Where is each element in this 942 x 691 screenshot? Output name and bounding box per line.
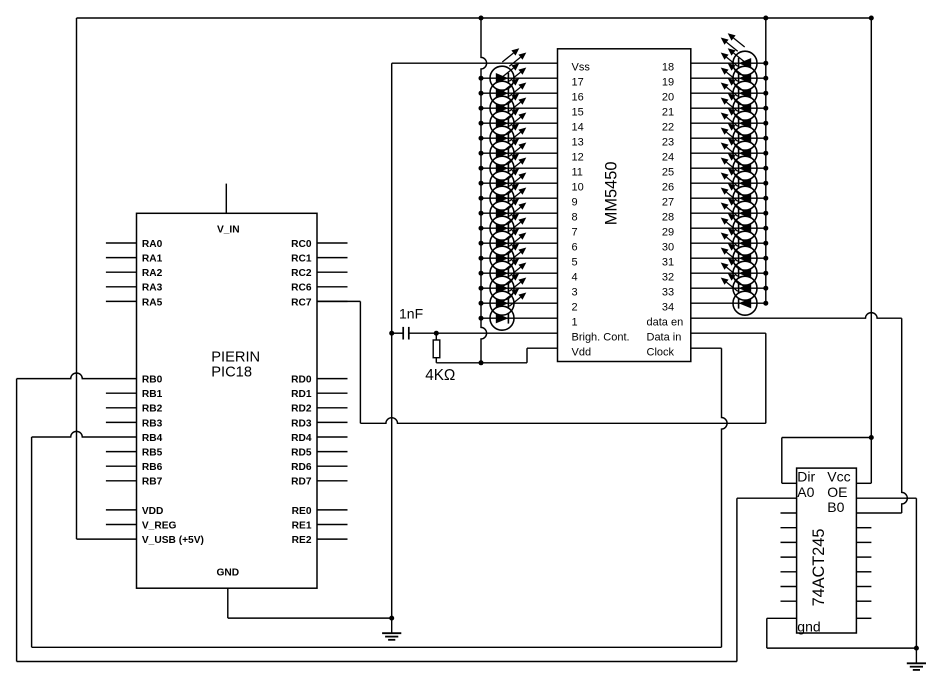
svg-text:33: 33 (662, 287, 674, 299)
svg-text:16: 16 (572, 92, 584, 104)
svg-text:17: 17 (572, 77, 584, 89)
svg-text:MM5450: MM5450 (603, 162, 621, 226)
svg-text:RB0: RB0 (142, 375, 163, 386)
svg-text:21: 21 (662, 107, 674, 119)
svg-text:4: 4 (572, 272, 578, 284)
svg-text:10: 10 (572, 182, 584, 194)
svg-text:14: 14 (572, 122, 584, 134)
svg-text:24: 24 (662, 152, 674, 164)
svg-text:V_REG: V_REG (142, 520, 177, 531)
svg-text:RB2: RB2 (142, 404, 163, 415)
svg-text:RA3: RA3 (142, 283, 163, 294)
svg-text:OE: OE (827, 484, 847, 500)
svg-text:RC7: RC7 (291, 297, 312, 308)
svg-text:RA5: RA5 (142, 297, 163, 308)
svg-text:RA0: RA0 (142, 239, 163, 250)
svg-text:PIERIN: PIERIN (211, 350, 260, 366)
svg-text:RD5: RD5 (291, 448, 312, 459)
svg-text:18: 18 (662, 62, 674, 74)
svg-text:Dir: Dir (797, 469, 815, 485)
svg-text:RA2: RA2 (142, 268, 163, 279)
svg-text:RA1: RA1 (142, 254, 163, 265)
svg-text:RD1: RD1 (291, 389, 312, 400)
svg-text:RD2: RD2 (291, 404, 312, 415)
svg-text:gnd: gnd (797, 618, 820, 634)
svg-text:RD6: RD6 (291, 462, 312, 473)
svg-text:31: 31 (662, 257, 674, 269)
svg-text:28: 28 (662, 212, 674, 224)
svg-text:29: 29 (662, 227, 674, 239)
svg-text:6: 6 (572, 242, 578, 254)
svg-text:Vss: Vss (572, 62, 591, 74)
svg-text:Vcc: Vcc (827, 469, 850, 485)
svg-text:RE1: RE1 (292, 520, 312, 531)
svg-text:RC6: RC6 (291, 283, 312, 294)
svg-text:PIC18: PIC18 (211, 364, 252, 380)
svg-text:26: 26 (662, 182, 674, 194)
svg-text:Data in: Data in (647, 332, 682, 344)
svg-text:RB5: RB5 (142, 448, 163, 459)
svg-text:RD0: RD0 (291, 375, 312, 386)
svg-text:RB7: RB7 (142, 477, 163, 488)
svg-text:15: 15 (572, 107, 584, 119)
svg-text:RD7: RD7 (291, 477, 312, 488)
svg-text:12: 12 (572, 152, 584, 164)
svg-text:data en: data en (647, 317, 684, 329)
svg-text:B0: B0 (827, 499, 844, 515)
svg-text:5: 5 (572, 257, 578, 269)
svg-text:RB1: RB1 (142, 389, 163, 400)
svg-text:4KΩ: 4KΩ (425, 367, 455, 384)
svg-text:7: 7 (572, 227, 578, 239)
svg-text:RD4: RD4 (291, 433, 312, 444)
svg-text:34: 34 (662, 302, 674, 314)
svg-text:3: 3 (572, 287, 578, 299)
svg-text:20: 20 (662, 92, 674, 104)
svg-text:9: 9 (572, 197, 578, 209)
svg-text:2: 2 (572, 302, 578, 314)
svg-text:RC2: RC2 (291, 268, 312, 279)
svg-text:A0: A0 (797, 484, 814, 500)
svg-text:RB6: RB6 (142, 462, 163, 473)
svg-text:8: 8 (572, 212, 578, 224)
svg-text:RC0: RC0 (291, 239, 312, 250)
svg-text:V_USB (+5V): V_USB (+5V) (142, 535, 204, 546)
svg-text:19: 19 (662, 77, 674, 89)
svg-text:30: 30 (662, 242, 674, 254)
svg-text:RD3: RD3 (291, 418, 312, 429)
svg-text:25: 25 (662, 167, 674, 179)
svg-text:RB4: RB4 (142, 433, 163, 444)
svg-text:23: 23 (662, 137, 674, 149)
svg-text:74ACT245: 74ACT245 (810, 529, 828, 607)
svg-text:27: 27 (662, 197, 674, 209)
svg-text:13: 13 (572, 137, 584, 149)
svg-text:VDD: VDD (142, 506, 164, 517)
svg-text:RE0: RE0 (292, 506, 312, 517)
svg-text:22: 22 (662, 122, 674, 134)
svg-text:1: 1 (572, 317, 578, 329)
svg-text:RB3: RB3 (142, 418, 163, 429)
svg-text:1nF: 1nF (399, 305, 423, 321)
svg-text:Vdd: Vdd (572, 347, 592, 359)
svg-text:32: 32 (662, 272, 674, 284)
svg-text:RE2: RE2 (292, 535, 312, 546)
svg-text:GND: GND (216, 567, 239, 578)
svg-text:V_IN: V_IN (217, 225, 240, 236)
svg-text:11: 11 (572, 167, 583, 179)
svg-text:Brigh. Cont.: Brigh. Cont. (572, 332, 630, 344)
svg-text:RC1: RC1 (291, 254, 312, 265)
svg-text:Clock: Clock (647, 347, 675, 359)
